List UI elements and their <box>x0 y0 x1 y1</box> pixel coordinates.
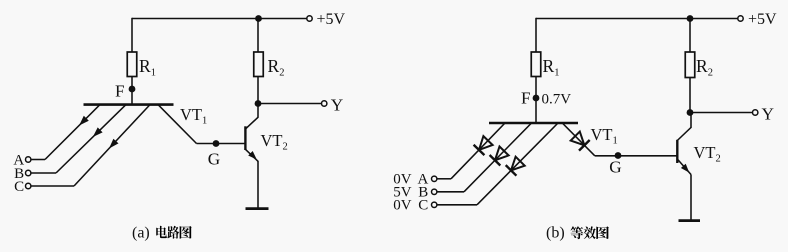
wire : (b) input line B <box>464 123 532 192</box>
transistor VT2 (a) : emitter arrow <box>248 151 257 160</box>
wire : (b) input line A <box>451 123 505 179</box>
wire : (a) input lead C <box>31 185 74 187</box>
emitter arrow A (a) <box>79 116 89 126</box>
transistor VT2 (a) : collector stroke <box>245 117 258 129</box>
base bar of multi-emitter transistor VT1 (a) <box>84 103 174 106</box>
transistor VT2 (a) : base bar <box>244 126 246 150</box>
svg-text:G: G <box>208 149 220 168</box>
node F (b) <box>533 95 540 102</box>
resistor R2 (b) <box>685 52 695 78</box>
diode DB (b) <box>495 147 509 161</box>
svg-text:+5V: +5V <box>317 11 346 28</box>
svg-text:0.7V: 0.7V <box>542 92 572 108</box>
wire : (a) R1 top lead <box>131 18 133 52</box>
node Y junction (b) <box>687 109 694 116</box>
wire : (a) input lead A <box>31 159 45 161</box>
svg-text:R1: R1 <box>139 56 156 79</box>
node Y junction (a) <box>255 100 262 107</box>
svg-text:VT1: VT1 <box>591 125 618 147</box>
wire : (a) output Y <box>258 103 322 105</box>
wire : (a) emitter line B <box>56 105 126 173</box>
node : (b) top junction <box>687 15 694 22</box>
svg-text:R2: R2 <box>268 56 285 79</box>
wire : (a) R1 bottom lead to base bar <box>131 77 133 106</box>
node F (a) <box>129 86 136 93</box>
diode DC (b) <box>511 157 525 171</box>
wire : (a) input lead B <box>31 172 56 174</box>
power terminal +5V (a) <box>307 16 312 21</box>
svg-text:Y: Y <box>331 96 343 115</box>
node : (a) top junction <box>255 15 262 22</box>
diode VT1 (b) <box>571 132 585 146</box>
wire : (b) VT1 diode diagonal <box>562 123 595 156</box>
caption (b) 图 <box>596 226 609 239</box>
caption (b) 效 <box>584 226 596 239</box>
wire : (a) R2 top lead <box>257 19 259 53</box>
output terminal Y (b) <box>753 110 758 115</box>
input terminal C (a) <box>26 183 31 188</box>
svg-text:(a): (a) <box>132 225 150 242</box>
caption (a) 图 <box>180 226 192 239</box>
node G (a) <box>213 140 220 147</box>
input terminal A (b) <box>432 176 437 181</box>
transistor VT2 (a) : emitter stroke <box>245 149 258 161</box>
wire : (b) VT2 collector up <box>690 113 692 129</box>
resistor R1 (b) <box>531 52 541 77</box>
wire : (b) input line C <box>477 123 558 205</box>
input terminal B (a) <box>26 170 31 175</box>
svg-text:C: C <box>14 179 24 195</box>
transistor VT2 (b) : collector stroke <box>677 128 691 141</box>
input terminal A (a) <box>26 157 31 162</box>
input terminal C (b) <box>432 202 437 207</box>
svg-text:F: F <box>115 82 125 101</box>
svg-text:F: F <box>521 89 531 108</box>
wire : (a) VT2 emitter down <box>257 161 259 208</box>
transistor VT2 (b) : emitter arrow <box>681 164 689 173</box>
wire : (b) R1 top lead <box>535 18 537 52</box>
resistor R1 (a) <box>127 52 137 77</box>
emitter arrow C (a) <box>109 139 119 149</box>
svg-text:VT2: VT2 <box>694 143 721 165</box>
power terminal +5V (b) <box>738 16 743 21</box>
caption (a) 电 <box>156 226 167 238</box>
ground (a) <box>246 207 269 210</box>
wire : (a) VT1 collector diagonal <box>158 105 197 144</box>
transistor VT2 (b) : base bar <box>676 140 678 163</box>
input terminal B (b) <box>432 189 437 194</box>
wire : (b) input lead B <box>437 191 464 193</box>
base bar (b) <box>489 122 578 125</box>
wire : (a) emitter line C <box>74 105 150 186</box>
caption (b) 等 <box>571 226 584 239</box>
transistor VT2 (b) : emitter stroke <box>677 159 691 175</box>
svg-text:VT2: VT2 <box>261 131 288 153</box>
wire : (b) output Y <box>690 112 753 114</box>
wire : (b) VT2 emitter down <box>690 175 692 221</box>
svg-text:G: G <box>609 157 621 176</box>
wire : (b) R1 bottom lead to bar <box>535 77 537 124</box>
svg-text:(b): (b) <box>546 225 565 242</box>
wire : (b) node G horizontal <box>595 155 677 157</box>
wire : (b) R2 top lead <box>689 19 691 53</box>
wire : (a) node G horizontal <box>197 143 246 145</box>
wire : (b) input lead C <box>437 204 477 206</box>
wire : (b) input lead A <box>437 178 451 180</box>
svg-text:0V C: 0V C <box>393 198 428 214</box>
wire : (a) R2 bottom lead <box>257 77 259 104</box>
wire : (a) top rail <box>132 18 307 20</box>
output terminal Y (a) <box>322 101 327 106</box>
svg-text:R2: R2 <box>696 56 713 79</box>
resistor R2 (a) <box>254 52 264 77</box>
wire : (a) VT2 collector up <box>257 104 259 118</box>
wire : (a) emitter line A <box>45 105 100 160</box>
emitter arrow B (a) <box>93 127 103 137</box>
wire : (b) R2 bottom lead <box>689 78 691 113</box>
caption (a) 路 <box>167 226 179 239</box>
svg-text:VT1: VT1 <box>180 105 207 127</box>
ground (b) <box>679 219 701 222</box>
svg-text:+5V: +5V <box>748 11 777 28</box>
svg-text:Y: Y <box>762 104 774 123</box>
wire : (b) top rail <box>536 18 738 20</box>
node G (b) <box>615 152 622 159</box>
diode DA (b) <box>479 136 493 150</box>
svg-text:R1: R1 <box>543 56 560 79</box>
